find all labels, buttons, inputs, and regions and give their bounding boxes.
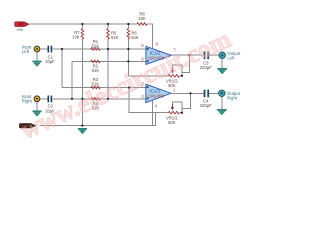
wire VR1 right lead bbox=[180, 75, 183, 77]
wire R5 leads bbox=[107, 24, 109, 99]
ground input right bbox=[33, 111, 41, 117]
svg-text:51K: 51K bbox=[131, 35, 139, 40]
wire bottom rail bbox=[40, 113, 156, 126]
wire rail to pin8 corner bbox=[147, 24, 153, 49]
capacitor C2 bbox=[48, 96, 53, 103]
svg-text:10µF: 10µF bbox=[45, 59, 55, 64]
svg-text:220µF: 220µF bbox=[200, 65, 212, 70]
ground input left bbox=[33, 61, 41, 67]
potentiometer VR1 bbox=[168, 75, 179, 78]
wire pin6 row bbox=[72, 60, 146, 62]
svg-text:10K: 10K bbox=[72, 34, 80, 39]
capacitor C1 bbox=[48, 46, 53, 53]
ground output left bbox=[218, 68, 227, 74]
svg-text:51K: 51K bbox=[92, 68, 100, 73]
VR2 wiper arrow bbox=[171, 104, 174, 110]
svg-text:+9V: +9V bbox=[16, 27, 24, 32]
wire R6 leads and feedback column bbox=[128, 24, 168, 76]
svg-text:Left: Left bbox=[227, 56, 235, 61]
wire C2 to pin3 bbox=[52, 98, 146, 100]
wire node A column x62 bbox=[61, 49, 63, 88]
wire top rail bbox=[29, 23, 138, 25]
wire input left ground stem bbox=[36, 52, 38, 61]
wire pin4 bbox=[151, 100, 153, 125]
svg-text:51K: 51K bbox=[92, 43, 100, 48]
ground rail bbox=[78, 128, 86, 134]
svg-text:51K: 51K bbox=[111, 35, 119, 40]
potentiometer VR2 bbox=[168, 111, 179, 114]
VR1 wiper arrow bbox=[171, 68, 174, 74]
op-amp U1b bbox=[146, 84, 171, 103]
svg-text:Right: Right bbox=[22, 99, 33, 104]
wire C1 to pin5 bbox=[52, 48, 146, 50]
wire pin2 row bbox=[62, 87, 146, 89]
svg-text:LM1458: LM1458 bbox=[147, 94, 164, 99]
wire input left row bbox=[41, 48, 48, 50]
wire output right row bbox=[171, 92, 219, 94]
svg-text:10K: 10K bbox=[138, 16, 146, 21]
terminal 0V bottom arrow bbox=[20, 124, 36, 128]
output left terminal bbox=[219, 52, 225, 58]
svg-text:5: 5 bbox=[141, 43, 144, 48]
svg-text:8: 8 bbox=[156, 42, 159, 47]
wire output left ground stem bbox=[221, 59, 223, 69]
svg-text:4: 4 bbox=[155, 103, 158, 108]
svg-text:50K: 50K bbox=[168, 120, 176, 125]
svg-text:1: 1 bbox=[173, 87, 176, 92]
svg-text:3: 3 bbox=[141, 94, 144, 99]
resistor R1 bbox=[91, 48, 100, 51]
junction dots bbox=[61, 23, 192, 127]
watermark www.eleccircuit.com bbox=[16, 24, 235, 145]
input right terminal bbox=[34, 96, 40, 102]
wire output right ground stem bbox=[221, 97, 223, 110]
output right terminal bbox=[219, 90, 225, 96]
wire wiper bracket top bbox=[172, 65, 182, 72]
resistor R4 bbox=[91, 98, 100, 101]
wire feedback column bottom opamp bbox=[129, 88, 168, 113]
input left terminal bbox=[34, 46, 40, 52]
wire output left row bbox=[171, 54, 219, 56]
resistor R8 bbox=[137, 23, 147, 26]
wire input right row bbox=[41, 98, 48, 100]
resistor R3 bbox=[91, 86, 100, 89]
wire VR2 right lead bbox=[180, 112, 183, 114]
capacitor C4 bbox=[204, 90, 210, 98]
wire R7 leads bbox=[81, 24, 83, 126]
svg-text:www.eleccircuit.com: www.eleccircuit.com bbox=[16, 24, 235, 145]
wire feedback box bottom bbox=[182, 93, 191, 112]
wire input right ground stem bbox=[36, 102, 38, 111]
svg-text:Left: Left bbox=[22, 49, 30, 54]
ground output right bbox=[217, 109, 226, 115]
terminal +9V bbox=[15, 22, 29, 27]
resistor R5 bbox=[107, 29, 110, 40]
wire column x72 bbox=[71, 61, 73, 98]
op-amp U1a bbox=[146, 46, 171, 64]
resistor R6 bbox=[127, 29, 130, 39]
capacitor C3 bbox=[204, 52, 210, 60]
svg-text:220µF: 220µF bbox=[200, 103, 212, 108]
wire wiper bracket bottom bbox=[172, 102, 182, 109]
resistor R7 bbox=[81, 29, 84, 40]
svg-text:Right: Right bbox=[227, 95, 238, 100]
wire feedback box top bbox=[182, 55, 190, 76]
resistor R2 bbox=[91, 60, 100, 63]
